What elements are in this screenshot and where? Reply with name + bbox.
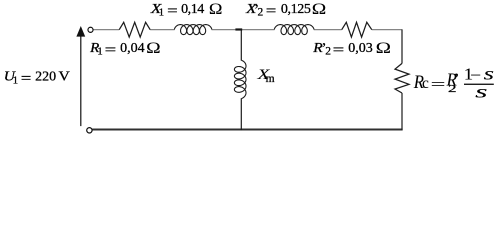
svg-text:0,04: 0,04 xyxy=(120,41,145,56)
arrow: U1 voltage arrow xyxy=(80,36,82,127)
svg-text:1: 1 xyxy=(159,7,165,19)
svg-text:0,14: 0,14 xyxy=(181,2,204,17)
wire top: R1 to X1 xyxy=(150,29,174,31)
resistor R'2 xyxy=(342,22,372,37)
inductor Xm (vertical) xyxy=(234,60,246,98)
svg-text:=: = xyxy=(105,43,117,58)
svg-text:Ω: Ω xyxy=(209,1,223,18)
node: junction tick at middle branch tee xyxy=(235,28,242,30)
svg-text:2: 2 xyxy=(448,83,457,95)
svg-text:220: 220 xyxy=(35,69,56,84)
svg-text:=: = xyxy=(21,71,32,86)
resistor RC (vertical) xyxy=(395,63,409,93)
svg-text:Ω: Ω xyxy=(376,40,391,57)
svg-text:Ω: Ω xyxy=(146,40,161,57)
terminal circle bottom xyxy=(87,128,92,133)
svg-text:Ω: Ω xyxy=(312,1,327,18)
wire top: R2p to right corner xyxy=(372,29,403,31)
svg-text:0,03: 0,03 xyxy=(348,41,373,56)
wire middle vertical lower xyxy=(240,98,242,130)
inductor X'2 xyxy=(274,25,314,35)
svg-text:=: = xyxy=(266,4,277,19)
terminal circle top xyxy=(88,27,93,32)
resistor R1 xyxy=(119,22,150,37)
wire top: terminal to R1 xyxy=(93,29,119,31)
fraction bar xyxy=(464,83,494,85)
svg-text:2: 2 xyxy=(258,7,264,19)
wire right vertical upper xyxy=(401,30,403,64)
svg-text:1: 1 xyxy=(13,74,19,86)
svg-text:2: 2 xyxy=(325,46,331,58)
svg-text:1: 1 xyxy=(97,46,103,58)
svg-text:0,125: 0,125 xyxy=(281,2,311,17)
svg-text:c: c xyxy=(422,75,429,92)
svg-text:m: m xyxy=(266,73,275,85)
svg-text:=: = xyxy=(431,76,446,93)
inductor X1 xyxy=(174,25,212,35)
wire bottom xyxy=(92,129,403,131)
wire middle vertical upper xyxy=(240,29,242,60)
wire top: X2p to R2p xyxy=(314,29,342,31)
wire top: X1 to X2p (through node) xyxy=(212,29,275,31)
svg-text:V: V xyxy=(59,69,70,84)
wire right vertical lower xyxy=(401,93,403,130)
svg-text:=: = xyxy=(333,43,345,58)
svg-text:=: = xyxy=(167,4,178,19)
